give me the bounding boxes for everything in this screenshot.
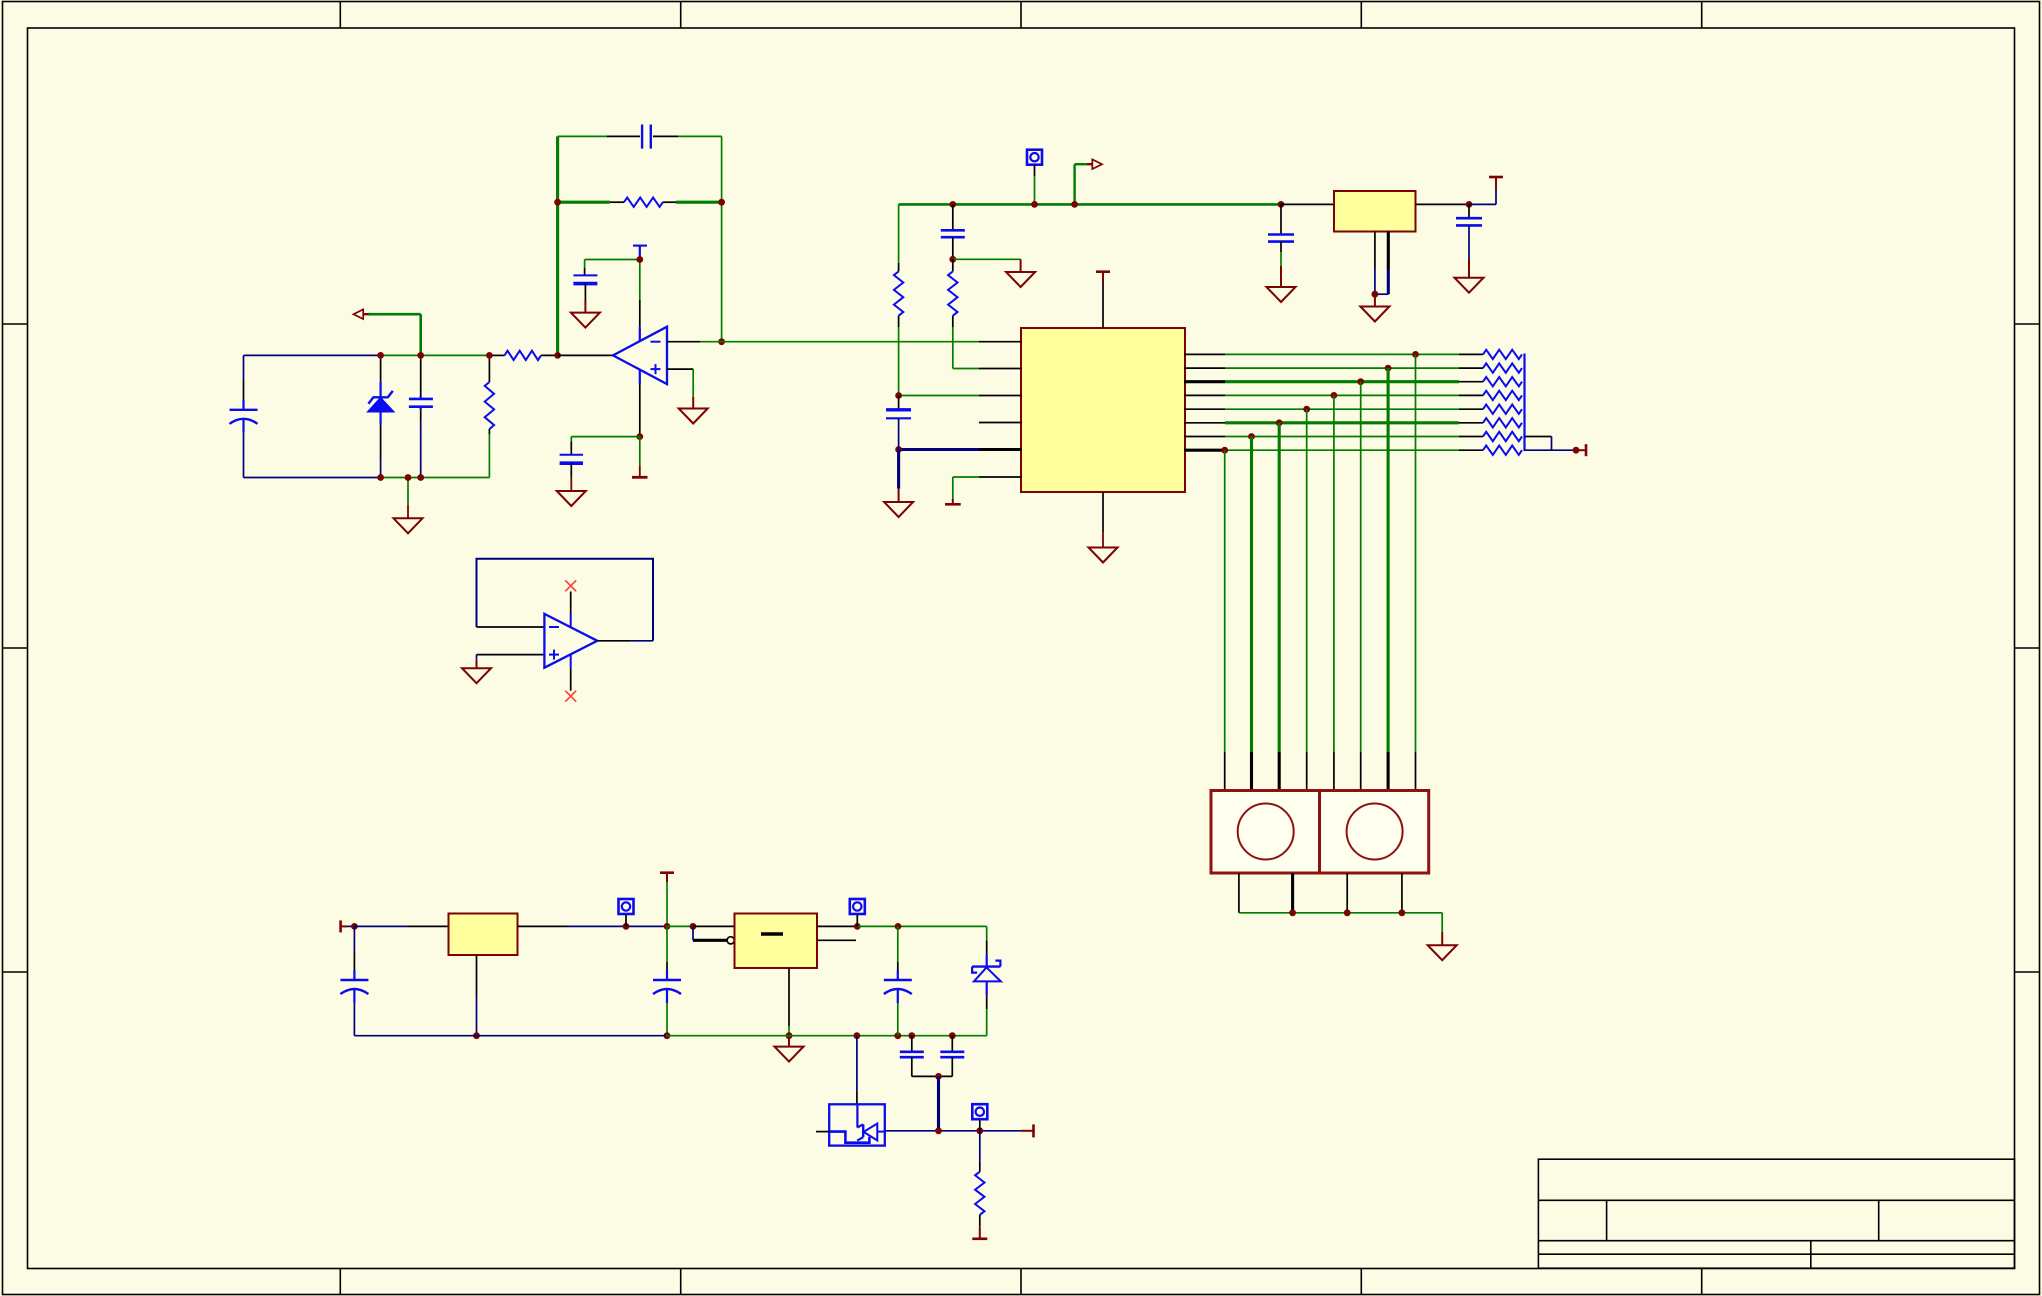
ground AVSS [897, 450, 900, 489]
op-amp U7 plus glyph [549, 654, 559, 656]
ground C6 [1020, 259, 1022, 272]
border zone tick left 3 [3, 971, 28, 973]
display pin bottom 1 [1238, 873, 1240, 913]
pin TL431 left stub [816, 1131, 829, 1133]
MCU pin right 1 [1184, 353, 1225, 355]
module U4 bottom pin [476, 955, 478, 997]
regulator ground pin 1 [1374, 232, 1376, 270]
wire caps join [912, 1075, 953, 1077]
wire bottom green [381, 477, 490, 479]
wire drop column 3 [1357, 378, 1364, 385]
wire regulator output [1416, 203, 1470, 205]
resistor RN1 [1459, 353, 1483, 355]
capacitor C10 bulk [353, 926, 355, 953]
op-amp U1 plus glyph [651, 368, 661, 370]
port P3 square [850, 899, 865, 914]
border zone tick right 1 [2015, 323, 2040, 325]
wire net row 6 [1225, 421, 1459, 424]
resistor RN8 [1459, 449, 1483, 451]
MCU pin left 1 [979, 341, 1022, 343]
junction dots feedback [554, 199, 561, 206]
port P4 lead [979, 1120, 981, 1131]
wire drop column 5 [1303, 406, 1310, 413]
wire inverting input [667, 341, 700, 343]
wire net row 3 [1225, 380, 1459, 383]
wire drop column 1 [1412, 351, 1419, 358]
wire V+ supply drop [639, 260, 641, 301]
display DS2 box [1320, 791, 1429, 874]
MCU pin right 5 [1184, 408, 1225, 410]
wire fb thick drop [937, 1076, 940, 1130]
capacitor C1 mic electret [242, 400, 244, 410]
port bar fb right [1021, 1130, 1028, 1132]
pin inverted circle U5 [727, 937, 734, 944]
no-ERC cross top [565, 580, 576, 591]
capacitor C7 reg in [1280, 204, 1282, 234]
ground MCU [1089, 548, 1118, 563]
MCU ground pin [1102, 492, 1104, 532]
MCU pin right 7 [1184, 436, 1225, 438]
display DS1 circle [1238, 804, 1294, 860]
border zone tick top 4 [1360, 2, 1362, 29]
wire C6 to ground [953, 258, 1021, 260]
junction dots mic [377, 352, 384, 359]
wire mic top navy [244, 354, 381, 356]
border zone tick bottom 2 [680, 1269, 682, 1295]
capacitor C5 feedback [558, 135, 607, 137]
power bar MCU top [1096, 270, 1110, 273]
wire row3 left [899, 395, 979, 397]
capacitor C3 decouple+ [573, 274, 597, 276]
wire net row 1 [1225, 353, 1459, 355]
power bar down pin6 [952, 499, 954, 505]
wire TL431 ref drop [856, 1036, 858, 1092]
net arrowhead right [1087, 163, 1093, 165]
title block column divider 1 [1606, 1200, 1608, 1240]
wire V- to cap [571, 436, 640, 438]
op-amp U1 triangle [613, 327, 667, 384]
no-ERC cross bottom [565, 691, 576, 702]
MCU pin right 6 [1184, 422, 1225, 424]
ground C7 [1280, 266, 1282, 287]
wire follower plus [477, 654, 545, 656]
resistor RN4 [1459, 394, 1483, 396]
port P1 square [1027, 150, 1042, 165]
capacitor C6 bus [949, 201, 956, 208]
capacitor C14 [951, 1036, 953, 1052]
wire output [558, 354, 613, 356]
border zone tick bottom 1 [339, 1269, 341, 1295]
wire mic left vertical [243, 355, 245, 380]
border zone tick bottom 4 [1360, 1269, 1362, 1295]
resistor R6 [979, 1131, 981, 1162]
title block row line 3 [1538, 1253, 2014, 1255]
module U5 ground pin [788, 968, 790, 1026]
regulator ground pin 2 [1387, 232, 1390, 270]
capacitor C13 [911, 1036, 913, 1052]
pin U5 nc stub [817, 939, 856, 941]
resistor RN2 [1459, 367, 1483, 369]
resistor R5 vertical [952, 259, 954, 271]
wire bus to regulator [1278, 201, 1285, 208]
port P1 lead [1034, 165, 1036, 177]
wire mic bottom navy [244, 477, 381, 479]
capacitor C2 [420, 355, 422, 396]
wire display ground bus [1239, 912, 1442, 914]
MCU pin left 4 [979, 422, 1022, 424]
wire drop column 7 [1248, 433, 1255, 440]
wire net row 2 [1225, 367, 1459, 369]
wire U5 output [817, 925, 857, 927]
title block outline [1538, 1159, 2014, 1268]
capacitor C8 reg out [1468, 204, 1470, 218]
power bar T mid [660, 871, 674, 874]
wire follower loop navy [477, 559, 654, 641]
wire 5V bus [899, 203, 1281, 206]
border zone tick top 5 [1701, 2, 1703, 29]
op-amp U7 triangle [544, 614, 597, 668]
net arrow stub [419, 314, 422, 355]
port P4 square [972, 1104, 987, 1119]
title block row line 2 [1538, 1240, 2014, 1242]
display pin bottom 2 [1291, 873, 1294, 913]
wire drop column 6 [1276, 419, 1283, 426]
wire net row 5 [1225, 408, 1459, 410]
MCU pin left 2 [979, 368, 1022, 370]
wire AC in top [354, 925, 408, 927]
wire U5 input step [667, 925, 693, 927]
wire node top [381, 354, 490, 356]
border zone tick left 1 [3, 323, 28, 325]
border zone tick right 2 [2015, 647, 2040, 649]
MCU pin left 6 [979, 476, 1022, 478]
wire drop column 2 [1385, 365, 1392, 372]
ground C4 [570, 478, 572, 491]
wire R5 to MCU [953, 368, 979, 370]
zener diode D2 [986, 926, 988, 940]
power bar V- down [639, 437, 641, 466]
ground regulator [1374, 294, 1376, 306]
resistor RN7 [1459, 436, 1483, 438]
port P2 square [619, 899, 634, 914]
capacitor C12 [897, 926, 899, 962]
TL431 U6 symbol [856, 1104, 858, 1127]
op-amp U1 minus glyph [651, 341, 661, 343]
module U4 box [449, 914, 518, 956]
display pin bottom 4 [1401, 873, 1403, 913]
resistor R1 [488, 355, 490, 382]
wire V- supply drop [639, 370, 641, 384]
ground follower [476, 660, 478, 669]
pin follower V+ [570, 592, 572, 615]
border zone tick left 2 [3, 647, 28, 649]
wire follower minus [477, 626, 545, 628]
wire pin6 bend [953, 476, 979, 478]
MCU pin right 3 [1184, 380, 1225, 383]
port bar right [1576, 449, 1586, 451]
display DS2 circle [1347, 804, 1403, 860]
capacitor C11 [666, 926, 668, 962]
port input bar [339, 920, 342, 932]
port P2 lead [625, 915, 627, 926]
MCU pin left 5 [979, 448, 1022, 451]
wire AVSS thick [899, 448, 979, 451]
wire op-amp to MCU [722, 341, 979, 343]
wire network link [1525, 436, 1552, 438]
MCU pin right 4 [1184, 394, 1225, 396]
wire drop column 8 [1221, 447, 1228, 454]
wire follower output [597, 640, 630, 642]
capacitor C4 decouple- [560, 454, 583, 456]
power bar VCC right [1495, 177, 1497, 190]
module U5 box [735, 914, 818, 969]
wire U4 output [518, 925, 568, 927]
border zone tick top 1 [339, 2, 341, 29]
MCU U3 box [1021, 328, 1185, 492]
ground C8 [1468, 259, 1470, 278]
net arrowhead left [363, 313, 369, 315]
MCU pin right 2 [1184, 367, 1225, 369]
ground non-inverting [692, 397, 694, 409]
display DS1 box [1211, 791, 1320, 874]
resistor R3 feedback [558, 201, 610, 204]
resistor RN3 [1459, 381, 1483, 383]
ground mic [407, 478, 409, 505]
ground displays [1441, 932, 1443, 945]
wire net row 7 [1225, 436, 1459, 438]
regulator U2 box [1334, 191, 1416, 232]
MCU pin left 3 [979, 395, 1022, 397]
title block column divider 2 [1878, 1200, 1880, 1240]
border zone tick top 3 [1020, 2, 1022, 29]
display pin bottom 3 [1346, 873, 1348, 913]
border zone tick bottom 5 [1701, 1269, 1703, 1295]
module U5 minus mark [761, 932, 783, 935]
resistor network common rail [1523, 354, 1525, 452]
resistor R4 vertical [898, 204, 900, 263]
border zone tick right 3 [2015, 971, 2040, 973]
net arrow stub right [1073, 164, 1075, 204]
wire feedback right vertical [721, 136, 723, 341]
MCU pin right 8 [1184, 449, 1225, 452]
wire net row 4 [1225, 394, 1459, 396]
wire network out [1525, 449, 1577, 451]
wire non-inverting input [667, 368, 693, 370]
resistor R2 input [489, 354, 504, 356]
ground U5 [788, 1036, 790, 1047]
pin follower V- [570, 654, 572, 667]
zener diode D1 [380, 355, 382, 381]
wire TL431 row [885, 1130, 1020, 1132]
border zone tick top 2 [680, 2, 682, 29]
resistor RN6 [1459, 422, 1483, 424]
resistor RN5 [1459, 408, 1483, 410]
wire drop column 4 [1331, 392, 1338, 399]
wire net row 8 [1225, 449, 1459, 451]
wire V+ to cap [585, 259, 640, 261]
ground C3 [584, 301, 586, 313]
title block column divider 3 [1810, 1241, 1812, 1269]
wire psu ground rail [354, 1035, 666, 1037]
border zone tick bottom 3 [1020, 1269, 1022, 1295]
power bar fb bottom [979, 1226, 981, 1239]
TL431 U6 box [829, 1104, 885, 1145]
power bar blue V+ [633, 245, 647, 247]
op-amp U7 minus glyph [549, 626, 559, 628]
capacitor C9 [898, 396, 900, 410]
port P3 lead [856, 915, 858, 926]
title block row line 1 [1538, 1199, 2014, 1201]
wire feedback left vertical [556, 136, 559, 355]
